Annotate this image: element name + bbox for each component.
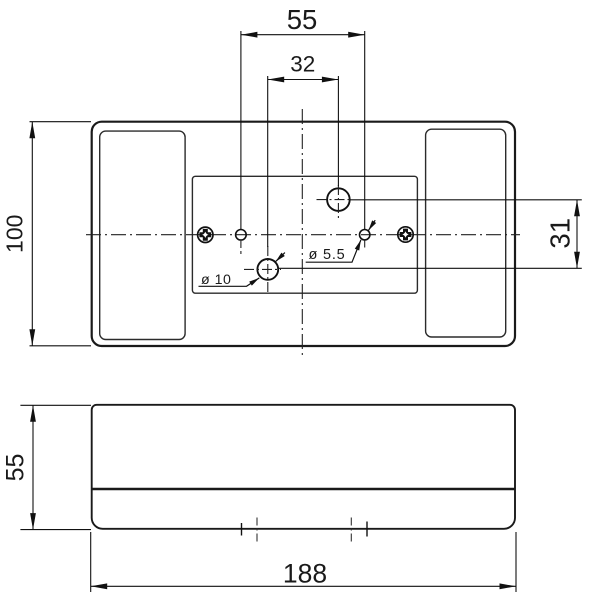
crosshair of dia10 hole [244, 268, 281, 270]
dim 55 top: dimension line [241, 34, 365, 36]
dim 32: dimension line [268, 79, 339, 81]
tick centerline 1 [241, 523, 243, 536]
top circle hole [327, 188, 350, 211]
leader label dia 5.5 [306, 220, 376, 263]
svg-text:100: 100 [2, 215, 28, 253]
svg-text:31: 31 [544, 218, 575, 249]
crosshair below dia5.5 hole [364, 241, 366, 251]
right lens rectangle [426, 129, 506, 337]
front view seam line [92, 488, 515, 490]
dim 55 top: extension lines [240, 31, 242, 230]
crosshair below small hole [240, 241, 242, 254]
dim 31 right: extension lines [350, 199, 582, 201]
small hole on centerline [236, 230, 247, 241]
tick centerline 4 [366, 522, 368, 537]
screw right [398, 227, 413, 242]
svg-text:32: 32 [290, 51, 315, 76]
dim 100 left: dimension line [31, 122, 33, 346]
tick centerline 2 [256, 518, 258, 544]
dim 55 front: dimension line [32, 405, 34, 529]
dim 188: extension lines [90, 532, 92, 592]
inner mounting panel [192, 176, 417, 293]
svg-text:55: 55 [1, 454, 29, 482]
leader label dia 10 [199, 253, 285, 288]
svg-text:188: 188 [283, 558, 327, 588]
svg-text:55: 55 [287, 4, 318, 35]
svg-text:ø 10: ø 10 [201, 272, 231, 288]
tick centerline 3 [350, 518, 352, 544]
dim 188: dimension line [91, 585, 516, 587]
dim 100 left: extension lines [30, 121, 92, 123]
front view: housing profile [92, 405, 515, 529]
hole dia 10 [257, 259, 278, 280]
left lens rectangle [100, 131, 185, 339]
svg-text:ø 5.5: ø 5.5 [309, 247, 346, 263]
dim 32: extension lines [267, 76, 269, 247]
hole dia 5.5 [360, 230, 370, 240]
dim 55 front: extension lines [20, 404, 91, 406]
dim 31 right: dimension line [576, 200, 578, 268]
horizontal centerline [86, 234, 520, 236]
top view: lamp outer housing box [92, 122, 515, 346]
vertical centerline [301, 109, 303, 355]
screw left [198, 227, 213, 242]
crosshair of top circle [317, 199, 353, 201]
